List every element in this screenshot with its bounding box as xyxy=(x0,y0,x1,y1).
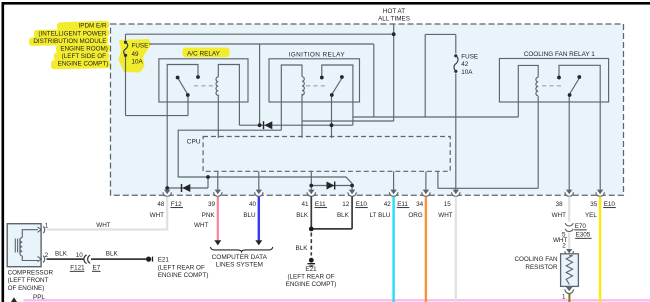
svg-text:E21: E21 xyxy=(158,257,170,264)
svg-text:FUSE: FUSE xyxy=(132,43,149,50)
svg-text:ORG: ORG xyxy=(408,212,422,219)
svg-text:E11: E11 xyxy=(315,201,326,208)
svg-text:E7: E7 xyxy=(93,265,101,272)
svg-text:42: 42 xyxy=(461,61,469,68)
svg-text:ENGINE COMPT): ENGINE COMPT) xyxy=(286,281,337,288)
svg-text:E10: E10 xyxy=(604,201,616,208)
svg-text:35: 35 xyxy=(590,201,598,208)
svg-text:RESISTOR: RESISTOR xyxy=(525,264,558,271)
svg-text:CPU: CPU xyxy=(187,139,201,146)
svg-text:BLK: BLK xyxy=(55,250,68,257)
svg-text:42: 42 xyxy=(384,201,392,208)
svg-text:PPL: PPL xyxy=(33,294,45,301)
svg-text:WHT: WHT xyxy=(150,212,164,219)
svg-text:YEL: YEL xyxy=(585,212,597,219)
svg-text:OF ENGINE): OF ENGINE) xyxy=(8,285,45,292)
svg-text:48: 48 xyxy=(157,201,165,208)
svg-text:A/C RELAY: A/C RELAY xyxy=(187,51,221,58)
svg-text:15: 15 xyxy=(444,201,452,208)
svg-text:E11: E11 xyxy=(397,201,408,208)
svg-text:F12: F12 xyxy=(171,201,182,208)
svg-text:F121: F121 xyxy=(70,265,85,272)
svg-text:WHT: WHT xyxy=(552,212,566,219)
svg-text:COMPRESSOR: COMPRESSOR xyxy=(8,270,54,277)
svg-text:PNK: PNK xyxy=(202,212,216,219)
svg-text:LINES SYSTEM: LINES SYSTEM xyxy=(216,262,263,269)
svg-text:DISTRIBUTION MODULE: DISTRIBUTION MODULE xyxy=(33,38,106,45)
svg-text:WHT: WHT xyxy=(96,222,110,229)
svg-text:10: 10 xyxy=(76,252,84,259)
svg-text:12: 12 xyxy=(342,201,350,208)
svg-text:WHT: WHT xyxy=(438,212,452,219)
svg-text:39: 39 xyxy=(208,201,216,208)
svg-text:E70: E70 xyxy=(575,223,587,230)
svg-text:IGNITION RELAY: IGNITION RELAY xyxy=(289,51,346,58)
svg-text:BLK: BLK xyxy=(296,212,309,219)
svg-text:40: 40 xyxy=(249,201,257,208)
svg-text:IPDM E/R: IPDM E/R xyxy=(79,23,107,30)
svg-text:ALL TIMES: ALL TIMES xyxy=(378,16,410,23)
svg-text:10A: 10A xyxy=(132,59,144,66)
svg-text:(LEFT REAR OF: (LEFT REAR OF xyxy=(287,274,334,281)
svg-text:1: 1 xyxy=(562,294,566,301)
svg-text:41: 41 xyxy=(301,201,309,208)
svg-text:BLK: BLK xyxy=(296,245,309,252)
svg-text:FUSE: FUSE xyxy=(461,53,478,60)
svg-text:ENGINE COMPT): ENGINE COMPT) xyxy=(158,272,209,279)
svg-text:ENGINE COMPT): ENGINE COMPT) xyxy=(58,61,109,68)
svg-text:(LEFT REAR OF: (LEFT REAR OF xyxy=(158,265,205,272)
svg-text:COMPUTER DATA: COMPUTER DATA xyxy=(212,254,268,261)
svg-text:BLK: BLK xyxy=(337,212,350,219)
svg-text:(LEFT FRONT: (LEFT FRONT xyxy=(8,277,49,284)
svg-text:COOLING FAN: COOLING FAN xyxy=(514,256,557,263)
svg-text:HOT AT: HOT AT xyxy=(383,8,405,15)
svg-text:BLU: BLU xyxy=(243,212,256,219)
svg-text:(LEFT SIDE OF: (LEFT SIDE OF xyxy=(62,53,106,60)
svg-text:E21: E21 xyxy=(305,266,317,273)
svg-text:49: 49 xyxy=(132,51,140,58)
svg-text:COOLING FAN RELAY 1: COOLING FAN RELAY 1 xyxy=(524,51,596,58)
svg-text:38: 38 xyxy=(556,201,564,208)
svg-text:10A: 10A xyxy=(461,69,473,76)
svg-text:ENGINE ROOM): ENGINE ROOM) xyxy=(60,46,108,53)
svg-text:WHT: WHT xyxy=(194,222,208,229)
svg-text:34: 34 xyxy=(416,201,424,208)
svg-text:BLK: BLK xyxy=(106,250,119,257)
svg-text:2: 2 xyxy=(562,243,566,250)
svg-text:2: 2 xyxy=(45,252,49,259)
svg-text:LT BLU: LT BLU xyxy=(370,212,391,219)
svg-text:E305: E305 xyxy=(576,232,591,239)
svg-text:1: 1 xyxy=(45,222,49,229)
svg-text:E10: E10 xyxy=(356,201,368,208)
svg-text:(INTELLIGENT POWER: (INTELLIGENT POWER xyxy=(38,30,107,37)
